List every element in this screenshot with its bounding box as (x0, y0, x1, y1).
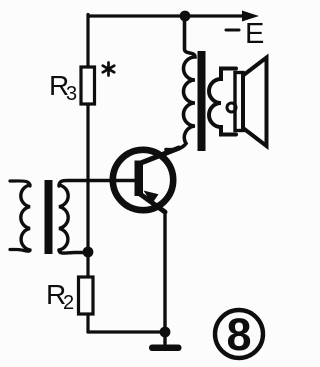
wire: emitter down to ground rail (163, 212, 166, 332)
node: junction dot base divider (83, 247, 94, 258)
svg-text:E: E (245, 18, 264, 50)
ground stub (163, 332, 166, 344)
speaker dot circle (227, 103, 236, 112)
label -E minus sign (226, 29, 239, 32)
transistor V1 circle (113, 150, 173, 210)
node: junction dot emitter/ground (160, 327, 171, 338)
transformer T2 core (198, 51, 206, 151)
ground bar (149, 345, 182, 352)
speaker cone (243, 58, 267, 147)
wire: top supply rail (88, 14, 248, 17)
speaker frame (235, 73, 243, 131)
transformer T1 primary winding (21, 185, 30, 250)
transformer T1 core (45, 180, 53, 254)
svg-text:2: 2 (63, 292, 74, 314)
supply arrow (242, 11, 259, 22)
wire: T1 secondary to base (59, 181, 135, 187)
resistor R3 (81, 67, 95, 104)
wire: bottom horizontal (88, 330, 165, 333)
transistor V1 collector line (140, 148, 180, 164)
wire: left vertical bus (R3 to R2) (86, 104, 89, 277)
transistor V1 emitter arrow (PNP) (144, 191, 159, 204)
wire: left vertical bus (R2 to bottom) (86, 314, 89, 332)
transistor V1 emitter line (140, 194, 165, 212)
resistor R2 (79, 277, 94, 314)
svg-text:3: 3 (66, 83, 77, 105)
asterisk (adjustable value mark) (103, 63, 114, 76)
figure number circle (215, 310, 263, 358)
transformer T1 secondary winding (59, 185, 68, 250)
transformer T1 primary bottom lead (10, 250, 30, 252)
wire: T1 secondary bottom lead to divider node (59, 250, 88, 253)
speaker body with winding bumps (209, 69, 236, 135)
wire: left vertical bus (rail to R3) (86, 15, 89, 68)
transistor V1 base bar (135, 161, 144, 197)
svg-text:8: 8 (226, 309, 251, 360)
transformer T2 primary lead from rail and winding (166, 15, 195, 150)
node: junction dot on rail (180, 11, 191, 22)
transformer T1 primary top lead (10, 181, 30, 186)
